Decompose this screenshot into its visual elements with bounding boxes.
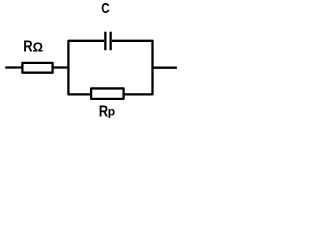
svg-text:C: C [101, 1, 110, 17]
svg-text:p: p [108, 104, 115, 118]
svg-text:Ω: Ω [33, 40, 43, 55]
svg-text:R: R [23, 39, 33, 56]
